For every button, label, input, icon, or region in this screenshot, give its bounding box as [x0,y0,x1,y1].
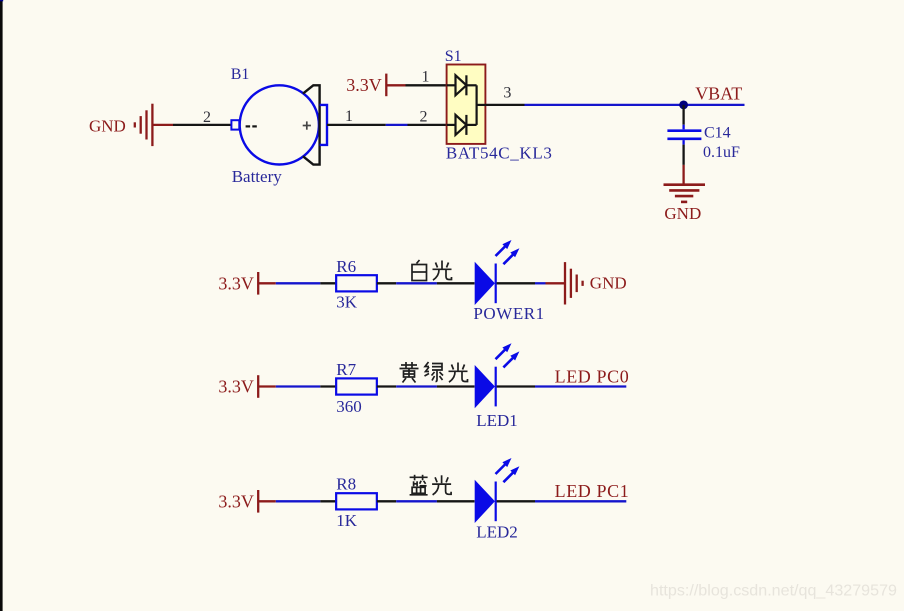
svg-text:BAT54C_KL3: BAT54C_KL3 [446,144,553,163]
svg-text:R6: R6 [336,257,356,276]
svg-text:R8: R8 [336,475,356,494]
svg-text:LED2: LED2 [476,523,518,542]
svg-text:POWER1: POWER1 [473,304,544,323]
svg-text:2: 2 [420,109,428,126]
svg-text:https://blog.csdn.net/qq_43279: https://blog.csdn.net/qq_43279579 [650,582,897,600]
svg-text:Battery: Battery [232,167,283,186]
svg-text:3K: 3K [336,293,358,312]
svg-text:360: 360 [336,397,362,416]
svg-text:B1: B1 [231,66,250,83]
svg-text:C14: C14 [704,125,731,142]
svg-text:LED PC1: LED PC1 [555,481,630,501]
svg-text:3.3V: 3.3V [218,377,254,397]
svg-text:S1: S1 [445,48,462,65]
svg-text:0.1uF: 0.1uF [703,144,740,161]
svg-text:LED PC0: LED PC0 [555,367,630,387]
svg-text:2: 2 [203,109,211,126]
svg-text:GND: GND [89,117,126,136]
svg-text:LED1: LED1 [476,411,518,430]
svg-text:3.3V: 3.3V [218,491,254,511]
svg-text:R7: R7 [336,360,356,379]
svg-text:1: 1 [345,108,353,125]
svg-text:1K: 1K [336,511,358,530]
svg-text:3.3V: 3.3V [346,75,382,95]
svg-text:3.3V: 3.3V [218,273,254,293]
svg-text:GND: GND [664,204,701,223]
svg-text:1: 1 [422,69,430,86]
svg-text:3: 3 [503,85,511,102]
svg-text:VBAT: VBAT [695,84,742,104]
svg-text:GND: GND [590,273,627,292]
